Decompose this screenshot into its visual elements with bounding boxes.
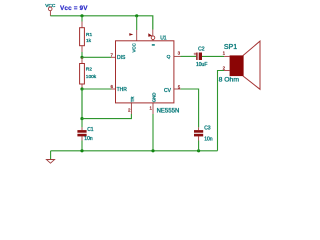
node junction rail/R1	[80, 14, 83, 17]
op-amp U1 NE555N body	[116, 41, 174, 103]
node junction TR/C1	[80, 117, 83, 120]
resistor R2	[80, 57, 97, 89]
pin 4 RST stub with bubble	[148, 30, 155, 46]
svg-text:10n: 10n	[204, 136, 213, 142]
svg-text:NE555N: NE555N	[157, 109, 180, 115]
resistor R1	[80, 16, 93, 58]
svg-text:GND: GND	[152, 93, 157, 103]
node junction GND/rail	[151, 149, 154, 152]
capacitor C2	[194, 47, 208, 69]
wire pin1 GND to rail	[152, 103, 154, 114]
svg-text:SP1: SP1	[224, 44, 237, 51]
svg-text:R1: R1	[86, 32, 92, 38]
wire to THR pin6	[82, 88, 111, 90]
svg-text:U1: U1	[160, 35, 167, 41]
wire pin5 CV to C3	[174, 88, 181, 90]
svg-text:VCC: VCC	[45, 3, 56, 9]
node junction C3/rail	[197, 149, 200, 152]
wire down to TR node	[81, 89, 83, 119]
svg-text:CV: CV	[164, 88, 172, 94]
capacitor C3	[194, 126, 213, 151]
node junction rail/pin8	[135, 14, 138, 17]
svg-text:VCC: VCC	[132, 43, 137, 52]
capacitor C1	[77, 119, 93, 151]
svg-text:100k: 100k	[86, 74, 97, 80]
wire top VCC rail	[50, 16, 152, 30]
power symbol VCC	[45, 3, 56, 16]
ERC arrow marker at pin 8	[129, 33, 133, 36]
ground	[46, 151, 54, 163]
svg-text:8 Ohm: 8 Ohm	[219, 77, 240, 84]
wire pin8 VCC stub	[136, 16, 138, 30]
svg-text:Vcc = 9V: Vcc = 9V	[60, 5, 88, 12]
wire C2 to speaker pin1	[202, 55, 224, 57]
svg-text:10uF: 10uF	[196, 62, 207, 68]
speaker SP1	[219, 41, 260, 89]
wire to TR pin2	[82, 114, 131, 119]
svg-text:10n: 10n	[84, 136, 93, 142]
svg-text:TR: TR	[130, 96, 135, 102]
svg-text:DIS: DIS	[117, 55, 126, 61]
wire bottom ground rail	[51, 150, 218, 152]
wire pin3 Q output	[174, 55, 181, 57]
node junction R2/THR	[80, 87, 83, 90]
svg-text:THR: THR	[117, 87, 128, 93]
svg-text:R2: R2	[86, 66, 92, 72]
node junction R1/R2/DIS	[80, 56, 83, 59]
wire to DIS pin7	[82, 56, 111, 58]
svg-text:C2: C2	[198, 47, 205, 53]
svg-text:1k: 1k	[86, 38, 92, 44]
svg-text:C1: C1	[87, 127, 94, 133]
svg-text:C3: C3	[204, 126, 211, 132]
svg-text:Q: Q	[167, 54, 171, 60]
wire speaker pin2 to ground rail	[224, 70, 230, 72]
node junction C1/rail	[80, 149, 83, 152]
